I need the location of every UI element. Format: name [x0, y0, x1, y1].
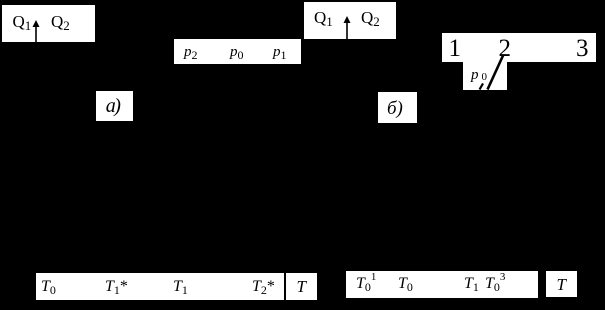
curve 2 line segment (diagonal): [484, 53, 506, 90]
T axis unit box (panel b): [546, 271, 577, 297]
label T (panel b): [557, 276, 566, 293]
panel a: Q1/Q2 axis label box: [2, 5, 95, 42]
T axis unit box (panel a): [286, 273, 317, 300]
curve numbers box 1 2 3 (panel b): [442, 33, 596, 62]
label T0^1: [356, 276, 376, 292]
label p0: [230, 45, 244, 60]
label a): [106, 96, 121, 116]
label T0 (panel b): [398, 276, 413, 292]
dashed tick below p0: [478, 83, 485, 90]
label Q1 (panel b): [314, 9, 333, 26]
arrow up (panel b axis): [343, 16, 351, 39]
label 3: [576, 36, 589, 61]
label p2: [184, 45, 198, 60]
p0 label notch box (panel b): [463, 61, 507, 90]
label b): [387, 99, 403, 118]
label T0: [41, 279, 56, 295]
label Q1 (panel a): [13, 13, 32, 30]
arrow up (panel a axis): [32, 20, 40, 42]
panel label a) box: [96, 91, 133, 121]
isobar labels box p2 p0 p1 (panel a): [174, 39, 301, 64]
label p1: [273, 45, 287, 60]
temperature axis box T0 T1* T1 T2* (panel a): [36, 273, 284, 300]
label 2: [499, 36, 512, 61]
label Q2 (panel b): [361, 9, 380, 26]
label T (panel a): [297, 278, 306, 295]
label Q2 (panel a): [51, 13, 70, 30]
label T1 (panel b): [464, 276, 479, 292]
label T1*: [105, 279, 128, 295]
panel label b) box: [378, 92, 417, 123]
panel b: Q1/Q2 axis label box: [304, 2, 396, 39]
label 1: [449, 36, 462, 61]
label T2*: [252, 279, 275, 295]
label T1 (panel a): [173, 279, 188, 295]
temperature axis box T0' T0 T1 T0''' (panel b): [346, 271, 538, 298]
label T0^3: [485, 276, 505, 292]
label p0 (panel b): [471, 68, 487, 83]
